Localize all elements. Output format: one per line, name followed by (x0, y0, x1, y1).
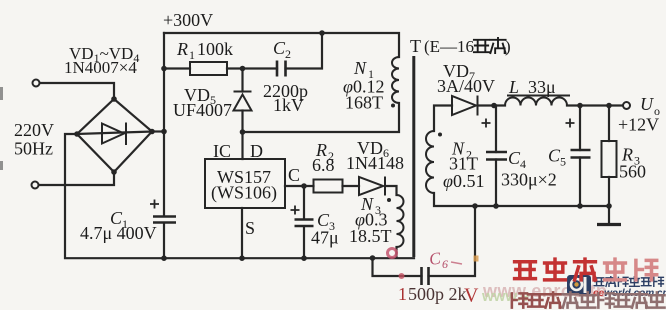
svg-text:(WS106): (WS106) (211, 183, 277, 204)
svg-text:220V: 220V (14, 120, 54, 140)
svg-text:4.7μ 400V: 4.7μ 400V (80, 223, 157, 243)
svg-text:(E—16: (E—16 (424, 37, 474, 56)
svg-text:+300V: +300V (163, 10, 213, 30)
svg-text:φ: φ (443, 171, 453, 191)
svg-text:50Hz: 50Hz (14, 139, 53, 159)
svg-text:0.51: 0.51 (453, 171, 485, 191)
svg-text:1: 1 (398, 284, 407, 304)
svg-text:6: 6 (442, 257, 448, 271)
svg-text:L: L (508, 77, 519, 97)
svg-text:T: T (410, 36, 421, 56)
svg-text:3A/40V: 3A/40V (437, 76, 495, 96)
svg-text:C: C (288, 165, 300, 185)
svg-text:N: N (353, 58, 367, 78)
svg-text:C: C (428, 248, 443, 268)
svg-text:UF4007: UF4007 (173, 100, 232, 120)
svg-text:V: V (464, 285, 479, 307)
svg-text:500p 2k: 500p 2k (408, 284, 467, 304)
svg-text:D: D (250, 141, 263, 161)
svg-text:6.8: 6.8 (312, 155, 335, 175)
svg-text:IC: IC (213, 141, 231, 161)
svg-text:560: 560 (619, 162, 646, 182)
svg-text:2: 2 (285, 47, 291, 61)
svg-text:18.5T: 18.5T (349, 226, 392, 246)
svg-text:1N4007×4: 1N4007×4 (64, 58, 137, 77)
svg-text:1: 1 (189, 48, 195, 62)
svg-text:+12V: +12V (618, 115, 659, 135)
svg-text:): ) (505, 37, 511, 56)
svg-text:www.e: www.e (481, 288, 529, 305)
svg-text:330μ×2: 330μ×2 (501, 170, 557, 190)
svg-text:U: U (640, 94, 654, 114)
svg-text:1N4148: 1N4148 (346, 153, 404, 173)
svg-text:168T: 168T (345, 93, 383, 113)
svg-text:R: R (176, 39, 188, 59)
svg-text:5: 5 (560, 155, 566, 169)
svg-text:100k: 100k (197, 39, 233, 59)
svg-text:S: S (245, 218, 255, 238)
svg-text:47μ: 47μ (311, 228, 339, 248)
svg-text:1kV: 1kV (273, 95, 304, 115)
svg-text:33μ: 33μ (528, 77, 556, 97)
